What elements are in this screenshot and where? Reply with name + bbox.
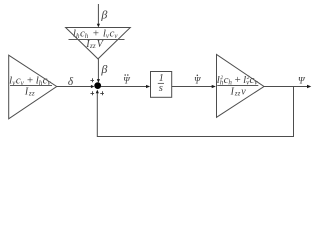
svg-text:β: β: [100, 7, 107, 21]
svg-text:lhch+lvcv: lhch+lvcv: [73, 27, 119, 40]
svg-text:Ψ: Ψ: [194, 76, 201, 86]
svg-text:Ψ: Ψ: [123, 75, 130, 85]
svg-text:Izz: Izz: [24, 87, 35, 98]
svg-text:Ψ: Ψ: [298, 77, 306, 87]
svg-text:δ: δ: [68, 76, 74, 88]
svg-text:s: s: [159, 83, 163, 94]
svg-text:β: β: [100, 62, 107, 76]
svg-text:l2hch+l2vcv: l2hch+l2vcv: [217, 74, 259, 87]
svg-text:Izzv: Izzv: [230, 87, 247, 98]
svg-text:IzzV: IzzV: [85, 39, 105, 50]
svg-text:lvcv+lhcv: lvcv+lhcv: [9, 74, 51, 87]
